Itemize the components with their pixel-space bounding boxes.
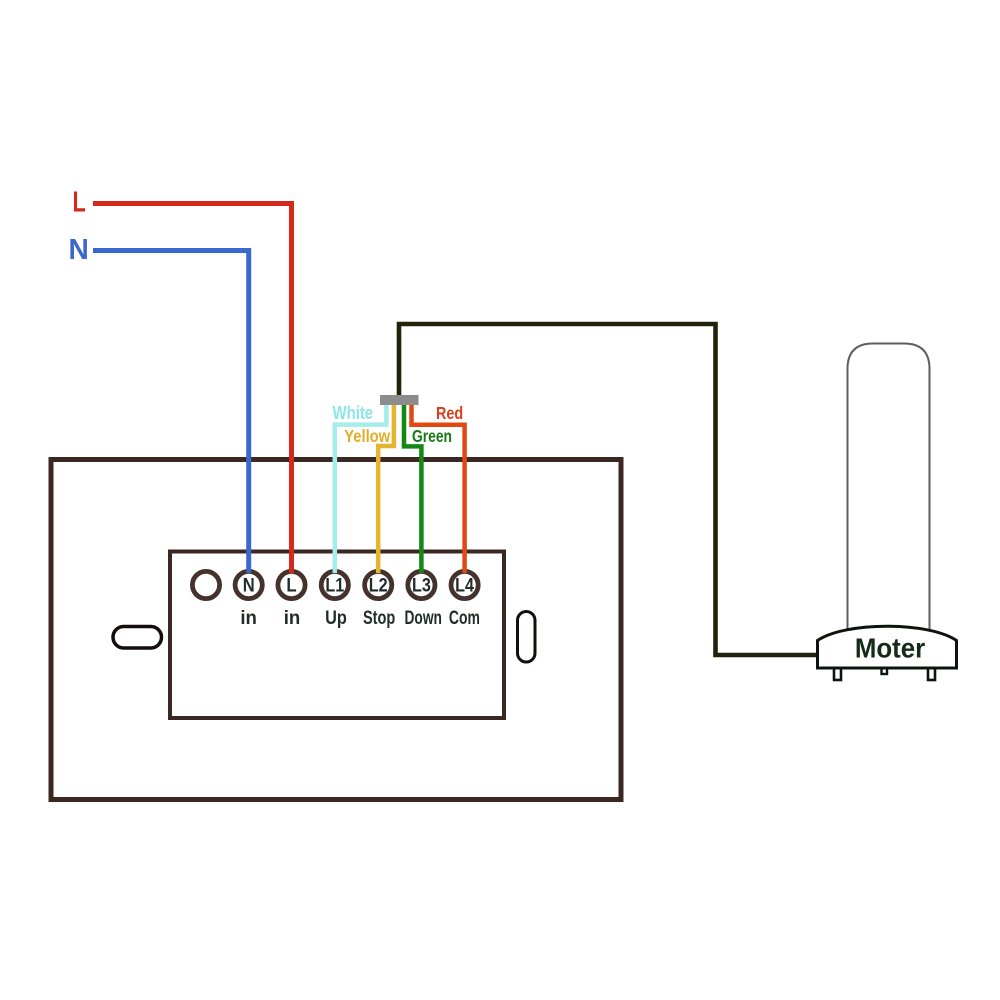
switch outer panel rectangle [51,460,621,800]
terminal circle L2 [365,571,392,598]
connector gray bar [380,395,419,405]
wire black live from connector to motor [399,324,818,655]
svg-text:Down: Down [404,607,441,629]
svg-text:White: White [332,402,373,423]
motor pin right [928,666,935,680]
motor pin middle [882,666,888,674]
svg-text:L: L [286,574,296,595]
motor base body [818,626,957,668]
svg-text:Up: Up [325,607,347,629]
terminal circle L [278,571,305,598]
svg-text:L3: L3 [412,574,431,596]
motor tube outline [848,344,930,641]
svg-text:L2: L2 [369,574,388,596]
svg-text:Red: Red [436,403,463,423]
wire neutral blue from N to terminal N [93,251,249,574]
svg-text:N: N [243,574,255,596]
terminal circle L3 [408,571,435,598]
wire live red from L to terminal L [93,204,292,574]
left mounting slot pill [113,627,162,649]
terminal circle L4 [451,571,478,598]
svg-text:L4: L4 [455,574,474,596]
svg-text:Green: Green [412,426,452,446]
wire green from connector to terminal L3 [404,400,421,573]
svg-text:Yellow: Yellow [344,426,390,446]
svg-text:Moter: Moter [855,633,925,664]
svg-text:L: L [72,187,85,219]
motor pin left [834,666,841,680]
terminal circle L1 [321,571,348,598]
svg-text:in: in [240,608,257,629]
svg-text:L1: L1 [325,574,344,596]
wire yellow from connector to terminal L2 [378,400,394,573]
terminal circle N [235,571,262,598]
wire white from connector to terminal L1 [335,400,387,573]
svg-text:N: N [69,234,89,266]
right mounting slot pill [518,612,536,663]
svg-text:Stop: Stop [363,606,395,629]
svg-text:in: in [284,608,301,629]
switch terminal block inner rectangle [170,552,504,719]
terminal circle blank [192,571,219,598]
svg-text:Com: Com [449,607,480,629]
wire red-orange from connector to terminal L4 [412,400,465,573]
